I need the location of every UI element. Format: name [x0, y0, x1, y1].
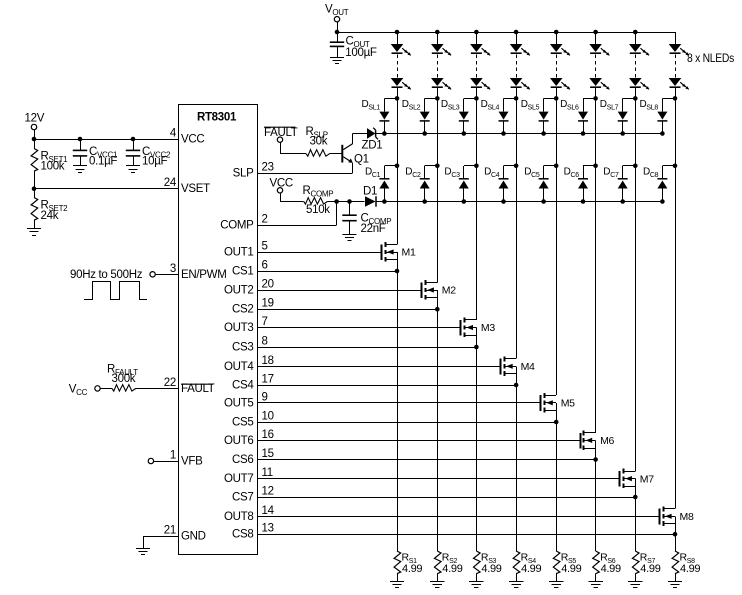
svg-text:7: 7: [262, 316, 268, 328]
svg-text:OUT4: OUT4: [224, 361, 254, 373]
svg-text:18: 18: [262, 355, 274, 367]
svg-text:CS8: CS8: [232, 529, 253, 541]
svg-text:4.99: 4.99: [481, 563, 501, 575]
svg-text:100k: 100k: [41, 161, 65, 173]
svg-text:M5: M5: [561, 398, 575, 410]
svg-text:M4: M4: [521, 361, 535, 373]
svg-text:SLP: SLP: [233, 168, 254, 180]
svg-text:CS5: CS5: [232, 417, 253, 429]
svg-text:EN/PWM: EN/PWM: [181, 269, 226, 281]
svg-text:100µF: 100µF: [345, 47, 377, 59]
svg-text:VCC: VCC: [181, 134, 204, 146]
svg-text:Q1: Q1: [354, 154, 369, 166]
svg-text:9: 9: [262, 391, 268, 403]
svg-text:24: 24: [164, 177, 177, 189]
svg-text:4.99: 4.99: [442, 563, 462, 575]
svg-text:M7: M7: [640, 473, 654, 485]
svg-text:90Hz to 500Hz: 90Hz to 500Hz: [70, 269, 143, 281]
svg-text:FAULT: FAULT: [264, 127, 298, 139]
svg-text:30k: 30k: [310, 136, 328, 148]
svg-text:5: 5: [262, 241, 268, 253]
svg-text:4.99: 4.99: [640, 563, 660, 575]
svg-text:3: 3: [170, 263, 176, 275]
svg-text:12V: 12V: [25, 113, 45, 125]
svg-text:15: 15: [262, 448, 274, 460]
svg-text:OUT5: OUT5: [224, 397, 253, 409]
svg-text:4.99: 4.99: [402, 563, 422, 575]
svg-text:4.99: 4.99: [601, 563, 621, 575]
svg-text:VFB: VFB: [181, 456, 203, 468]
svg-text:CS6: CS6: [232, 454, 253, 466]
svg-text:M8: M8: [680, 511, 694, 523]
svg-text:FAULT: FAULT: [181, 383, 215, 395]
svg-text:CS7: CS7: [232, 492, 253, 504]
svg-text:8: 8: [262, 336, 268, 348]
svg-text:8 x NLEDs: 8 x NLEDs: [687, 53, 734, 65]
svg-text:22: 22: [164, 377, 176, 389]
svg-text:ZD1: ZD1: [362, 140, 383, 152]
svg-text:4.99: 4.99: [561, 563, 581, 575]
svg-text:6: 6: [262, 260, 268, 272]
svg-text:4: 4: [170, 128, 177, 140]
svg-text:510k: 510k: [306, 204, 330, 216]
svg-text:10µF: 10µF: [142, 156, 168, 168]
svg-text:VSET: VSET: [181, 183, 210, 195]
svg-text:CS2: CS2: [232, 304, 253, 316]
svg-text:OUT3: OUT3: [224, 322, 253, 334]
svg-text:22nF: 22nF: [361, 223, 386, 235]
svg-text:OUT2: OUT2: [224, 285, 253, 297]
svg-text:17: 17: [262, 374, 274, 386]
svg-text:CS4: CS4: [232, 380, 254, 392]
svg-text:23: 23: [262, 162, 274, 174]
svg-text:GND: GND: [181, 531, 206, 543]
svg-text:RT8301: RT8301: [197, 112, 237, 124]
svg-text:CS1: CS1: [232, 266, 253, 278]
svg-text:14: 14: [262, 505, 275, 517]
svg-text:COMP: COMP: [220, 220, 254, 232]
svg-text:M6: M6: [600, 435, 614, 447]
svg-text:M3: M3: [481, 322, 495, 334]
svg-text:VCC: VCC: [270, 178, 293, 190]
svg-text:OUT7: OUT7: [224, 473, 253, 485]
svg-text:21: 21: [164, 525, 176, 537]
svg-text:24k: 24k: [41, 210, 59, 222]
svg-text:OUT8: OUT8: [224, 511, 253, 523]
svg-text:CS3: CS3: [232, 342, 253, 354]
svg-text:10: 10: [262, 411, 274, 423]
svg-text:M2: M2: [442, 285, 456, 297]
svg-text:4.99: 4.99: [521, 563, 541, 575]
svg-text:0.1µF: 0.1µF: [89, 156, 117, 168]
svg-text:2: 2: [262, 214, 268, 226]
svg-text:12: 12: [262, 486, 274, 498]
svg-text:16: 16: [262, 429, 274, 441]
svg-text:19: 19: [262, 298, 274, 310]
svg-text:20: 20: [262, 279, 274, 291]
svg-text:M1: M1: [402, 247, 416, 259]
svg-text:D1: D1: [363, 185, 377, 197]
svg-text:4.99: 4.99: [680, 563, 700, 575]
svg-text:OUT6: OUT6: [224, 435, 253, 447]
svg-text:OUT1: OUT1: [224, 247, 253, 259]
svg-text:11: 11: [262, 467, 273, 479]
svg-text:300k: 300k: [112, 373, 136, 385]
svg-text:1: 1: [170, 450, 176, 462]
svg-text:13: 13: [262, 523, 274, 535]
